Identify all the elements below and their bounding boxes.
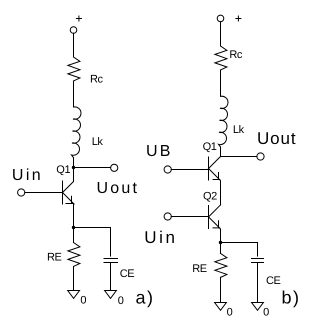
resistor RE (b) [215, 253, 227, 277]
terminal UB [164, 166, 171, 173]
wire: Rc to Lk (b) [220, 70, 222, 96]
resistor Rc (a) [68, 57, 80, 81]
wire: Lk to collector corner (b) [220, 147, 222, 157]
wire: junction to CE top (a) [110, 228, 112, 257]
svg-text:Q1: Q1 [203, 141, 217, 153]
wire: collector corner to Uout terminal (b) [221, 156, 258, 158]
wire: emitter junction to RE (a) [73, 228, 75, 243]
svg-text:b): b) [282, 287, 301, 307]
svg-text:UB: UB [146, 143, 173, 160]
svg-text:Q2: Q2 [203, 191, 217, 203]
wire: junction to CE top (b) [257, 243, 259, 257]
wire: junction to RE (b) [220, 243, 222, 254]
wire: RE to ground (b) [220, 277, 222, 302]
wire: Lk to collector node (a) [73, 158, 75, 168]
svg-text:0: 0 [80, 294, 86, 306]
capacitor CE (a) [104, 259, 118, 291]
inductor Lk (b) [219, 96, 228, 147]
terminal Uout (b) [257, 153, 264, 160]
svg-text:RE: RE [47, 251, 62, 263]
node: emitter junction (a) [72, 226, 75, 229]
wire: emitter junction to CE (a) [74, 227, 111, 229]
capacitor CE (b) [252, 259, 264, 303]
wire: collector node to Uout terminal (a) [74, 167, 111, 169]
svg-text:Uout: Uout [97, 180, 140, 197]
node: collector junction (a) [72, 166, 75, 169]
svg-text:Q1: Q1 [56, 164, 70, 176]
svg-text:RE: RE [192, 263, 207, 275]
ground 0 (a, RE leg) [68, 291, 87, 307]
wire: Uin terminal to Q2 base (b) [171, 216, 208, 218]
svg-text:Uin: Uin [144, 228, 177, 247]
ground 0 (b, CE leg) [252, 303, 270, 319]
svg-text:a): a) [136, 287, 155, 307]
svg-text:Uin: Uin [12, 167, 43, 184]
svg-text:Uout: Uout [257, 129, 297, 148]
supply terminal + (circuit b) [217, 15, 241, 22]
svg-text:Rc: Rc [90, 74, 104, 86]
terminal Uin (b) [164, 213, 171, 220]
wire: junction to CE (b) [221, 242, 258, 244]
transistor Q2 (b) [209, 205, 221, 229]
wire: Q1 emitter to Q2 collector (b) [219, 180, 222, 205]
terminal Uin (a) [18, 189, 25, 196]
wire: UB terminal to Q1 base (b) [171, 169, 208, 171]
wire: Rc to Lk (a) [73, 81, 75, 107]
terminal Uout (a) [111, 164, 118, 171]
node: emitter junction (b) [219, 241, 222, 244]
svg-text:CE: CE [266, 275, 281, 287]
wire: Q2 emitter to junction (b) [219, 228, 222, 242]
wire: RE to ground (a) [73, 267, 75, 291]
resistor RE (a) [68, 243, 80, 267]
svg-text:Rc: Rc [229, 49, 243, 61]
ground 0 (a, CE leg) [105, 291, 124, 307]
svg-text:Lk: Lk [92, 136, 104, 148]
svg-text:Lk: Lk [233, 124, 245, 136]
wire: Uin terminal to base (a) [25, 192, 63, 194]
supply terminal + (circuit a) [70, 16, 81, 33]
svg-text:0: 0 [118, 295, 124, 307]
resistor Rc (b) [215, 46, 227, 70]
ground 0 (b, RE leg) [215, 303, 233, 319]
svg-text:CE: CE [120, 268, 135, 280]
wire: emitter to junction (a) [73, 204, 76, 228]
transistor Q1 (a) [63, 168, 75, 205]
svg-text:0: 0 [263, 306, 269, 318]
wire: supply to Rc (b) [220, 22, 222, 46]
transistor Q1 (b) [209, 157, 221, 181]
wire: supply to Rc (a) [73, 33, 75, 57]
inductor Lk (a) [72, 107, 81, 158]
svg-text:0: 0 [227, 306, 233, 318]
